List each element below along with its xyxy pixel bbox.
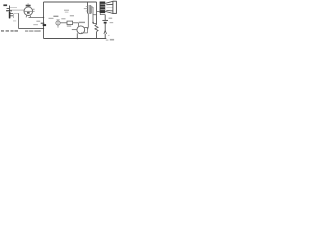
label (C1 value): [36, 21, 40, 22]
wire (bottom rail y=38.5): [44, 38, 107, 40]
wire (jack to resistor): [60, 22, 67, 24]
resistor R1 (box): [67, 21, 73, 24]
node A (input terminal blob top-left): [3, 4, 7, 6]
label (R1 value): [67, 25, 71, 26]
resistor R2 (zigzag on right riser): [96, 2, 98, 25]
wire (pickup to microphone, y=10): [10, 9, 24, 11]
node D (junction bus/return wire): [43, 28, 44, 29]
label (jack label text): [53, 16, 58, 17]
wire (base stub from left): [72, 29, 77, 31]
label (faint label above, TR1 area): [64, 10, 69, 11]
wire (collector to transformer riser): [84, 27, 88, 29]
wire (secondary lead down x=93): [92, 6, 93, 8]
battery B1: [104, 15, 106, 20]
transistor Q1 AC128 (circle): [77, 26, 85, 34]
wire (top rail y=2): [44, 1, 97, 3]
transformer T1 (primary, core, secondary): [84, 2, 92, 14]
horn flare (curves): [105, 1, 113, 13]
loudspeaker LS1 (horn driver, striped): [100, 2, 106, 14]
jack J1 (input socket circle): [56, 21, 60, 25]
wire (microphone bottom to vertical bus, y=17.5): [29, 17, 44, 19]
connector (tent symbol at battery bottom): [104, 31, 107, 34]
label AC128: [79, 22, 85, 23]
microphone M1 (circle with cap, stand legs): [24, 3, 35, 17]
wire (pickup return: tick across, down and along y=28.5): [14, 13, 19, 15]
pickup PU1 (hatched crystal pickup, left): [6, 6, 13, 19]
label (tiny caption at rail end): [106, 40, 109, 41]
horn mouth (rim rectangle): [113, 1, 117, 14]
node C (junction bus/mic wire): [43, 17, 44, 18]
wire (feedback stub, y=32.8): [81, 32, 88, 34]
wire (stub into speaker): [97, 11, 100, 13]
capacitor C1 (on the bus, y=23): [41, 23, 45, 24]
wire (emitter down to rail): [76, 33, 78, 38]
wire (resistor to base corner): [73, 22, 79, 24]
wire (speaker bottom lead to battery): [100, 13, 105, 14]
label (battery labels): [109, 18, 113, 19]
wire (faint lead from terminal): [10, 7, 17, 9]
wire (main vertical bus x=43.5): [43, 2, 45, 39]
caption text (bottom-left gray words): [1, 30, 41, 32]
node B (junction dot): [92, 22, 94, 24]
